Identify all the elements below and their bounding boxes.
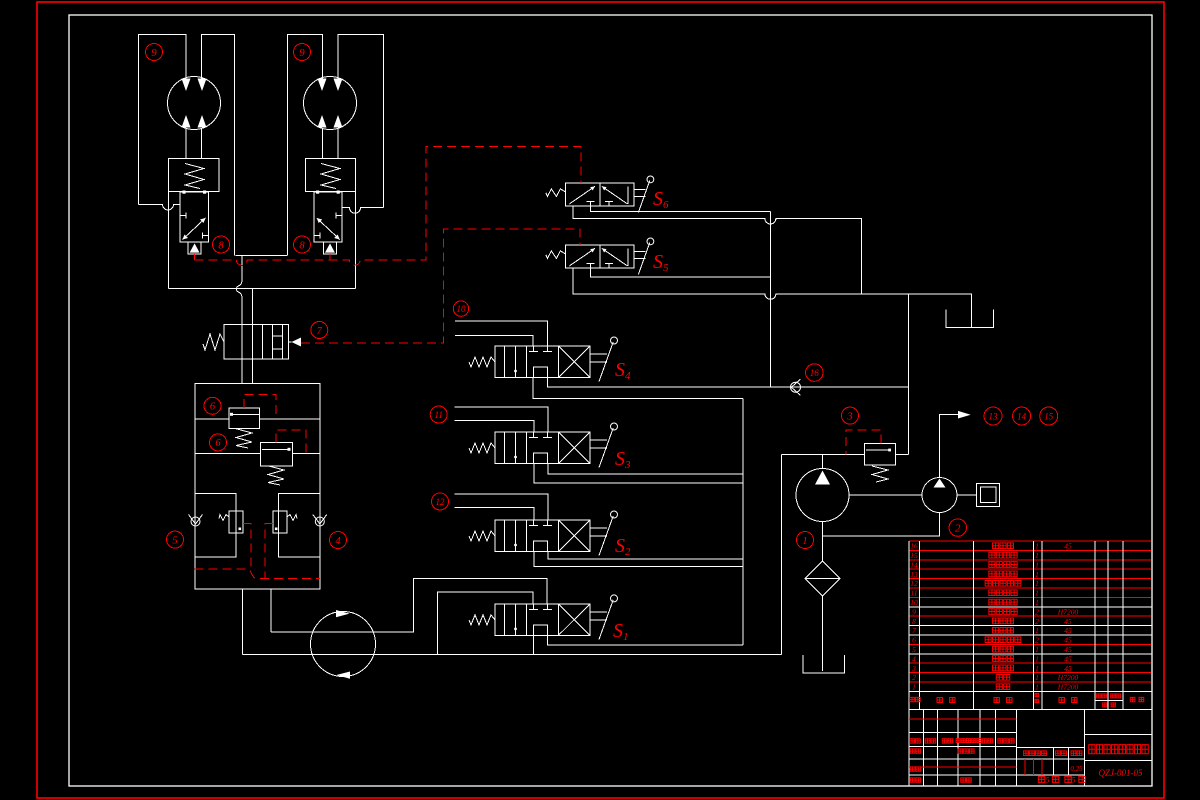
wire block line A (195, 418, 320, 420)
pilot drop valve8R (329, 254, 331, 260)
svg-text:45: 45 (1064, 542, 1072, 551)
svg-text:45: 45 (1064, 626, 1072, 635)
svg-text:8: 8 (299, 240, 305, 251)
label 13 (984, 407, 1002, 425)
svg-text:6: 6 (215, 438, 221, 449)
valve 8 right pilot (323, 242, 336, 254)
svg-text:1: 1 (1035, 589, 1039, 598)
svg-text:1: 1 (1035, 560, 1039, 569)
pilot relief valve 3 (846, 430, 881, 455)
svg-text:13: 13 (910, 570, 918, 579)
label 8 left (213, 236, 230, 253)
pilot line valve8L to S6 (194, 254, 196, 260)
wire pump upper line (271, 579, 547, 632)
pilot valve 6 upper (244, 394, 276, 419)
valve S2 (469, 511, 618, 556)
wire pump lower return line (243, 654, 782, 656)
svg-text:1: 1 (1035, 645, 1039, 654)
pilot block right (265, 524, 273, 579)
svg-text:7: 7 (912, 626, 916, 635)
svg-text:5: 5 (1046, 776, 1050, 785)
svg-text:1: 1 (1035, 626, 1039, 635)
wire pump outlet (822, 455, 824, 469)
pilot valve right in block (273, 511, 297, 533)
label 8 right (294, 236, 311, 253)
svg-text:H7200: H7200 (1057, 683, 1079, 692)
label 11 (430, 406, 447, 423)
relief valve 3 (865, 444, 896, 482)
wire S6 outputs (590, 206, 770, 211)
svg-text:15: 15 (1044, 412, 1054, 422)
svg-text:15: 15 (910, 551, 918, 560)
wire S2 ports (455, 494, 548, 520)
wire block bottom pipes (243, 589, 271, 655)
svg-text:13: 13 (989, 412, 999, 422)
wire tank return right (780, 455, 782, 655)
balance valve 6 upper (229, 408, 259, 448)
wire left loop to valve8L (139, 205, 181, 211)
balance valve 6 lower (261, 442, 293, 485)
hydraulic motor 9 left (168, 77, 221, 130)
tank top right (946, 309, 993, 327)
BOM rows text (910, 542, 1078, 692)
svg-text:8: 8 (218, 240, 224, 251)
tank bottom (803, 655, 845, 673)
svg-text:5: 5 (172, 535, 177, 546)
pilot line valve7 to S5 (301, 229, 580, 343)
label 10 (453, 301, 468, 316)
valve 8 left body (180, 191, 208, 243)
svg-text:4: 4 (335, 536, 341, 547)
valve block outline (195, 383, 320, 589)
label 2 (949, 519, 966, 536)
label 1 (797, 532, 814, 549)
brake spring box right (305, 159, 355, 192)
svg-text:2: 2 (955, 523, 961, 534)
electric motor 2 (922, 478, 957, 513)
svg-text:H7200: H7200 (1057, 607, 1079, 616)
svg-text:1: 1 (1035, 654, 1039, 663)
svg-text:9: 9 (912, 607, 916, 616)
label 9 left (146, 44, 163, 61)
svg-text:14: 14 (910, 560, 918, 569)
callout circles (146, 44, 1058, 549)
svg-text:1: 1 (1035, 683, 1039, 692)
svg-text:8: 8 (912, 617, 916, 626)
valve S4 (469, 337, 618, 382)
svg-text:11: 11 (911, 589, 918, 598)
wire right loop to valve8R (342, 208, 383, 214)
svg-text:5: 5 (912, 645, 916, 654)
svg-text:9: 9 (299, 48, 305, 59)
valve S5 (546, 238, 654, 274)
svg-text:1: 1 (1035, 664, 1039, 673)
svg-text:0.25: 0.25 (1070, 765, 1083, 773)
svg-text:12: 12 (436, 497, 446, 507)
wire S4 ports (455, 321, 548, 346)
BOM header fake cjk (910, 693, 1144, 707)
label 6 lower (210, 434, 227, 451)
drive square (957, 483, 1000, 506)
wire S5 outputs (590, 268, 770, 277)
svg-text:3: 3 (846, 411, 852, 422)
svg-text:QZJ-001-05: QZJ-001-05 (1099, 768, 1143, 778)
valve 7 (203, 324, 301, 359)
label 6 upper (204, 397, 221, 414)
sheet numbers (1046, 776, 1076, 785)
rotary pump (311, 610, 376, 679)
wire motor-left ports (139, 35, 235, 256)
svg-text:9: 9 (151, 48, 157, 59)
svg-text:45: 45 (1064, 664, 1072, 673)
label 12 (432, 493, 449, 510)
wire brake cross line (168, 192, 355, 289)
svg-text:1: 1 (1035, 579, 1039, 588)
svg-text:45: 45 (1064, 636, 1072, 645)
block inner chamber left (195, 493, 236, 557)
valve S3 (469, 423, 618, 468)
svg-text:4: 4 (912, 654, 916, 663)
pilot block bottom (195, 569, 320, 579)
svg-text:1: 1 (1035, 570, 1039, 579)
svg-text:1: 1 (912, 683, 916, 692)
label 7 (311, 322, 328, 339)
svg-text:2: 2 (1035, 607, 1039, 616)
svg-text:2: 2 (1035, 617, 1039, 626)
svg-text:1: 1 (1035, 673, 1039, 682)
svg-text:H7200: H7200 (1057, 673, 1079, 682)
svg-text:1: 1 (1035, 542, 1039, 551)
BOM table grid (909, 541, 1151, 786)
valve S1 (469, 595, 618, 640)
label 14 (1013, 407, 1031, 425)
wire filter to tank (822, 596, 824, 671)
svg-text:16: 16 (810, 368, 820, 378)
svg-text:7: 7 (317, 326, 323, 337)
svg-text:1: 1 (802, 536, 807, 547)
svg-text:10: 10 (457, 304, 467, 314)
label 9 right (294, 44, 311, 61)
wire coupling (849, 494, 922, 496)
label 3 (842, 407, 859, 424)
svg-text:45: 45 (1064, 645, 1072, 654)
wire S1 feed left (437, 592, 532, 654)
label 16 (806, 364, 824, 382)
svg-text:6: 6 (210, 402, 216, 413)
svg-text:11: 11 (435, 410, 443, 420)
wire motor2 top arrow (940, 411, 971, 478)
svg-text:45: 45 (1064, 617, 1072, 626)
svg-text:1: 1 (1035, 598, 1039, 607)
wire to valve 7 left pipe (236, 256, 242, 325)
svg-text:5: 5 (1072, 776, 1076, 785)
label 5 (167, 531, 184, 548)
block inner chamber right (279, 493, 320, 557)
filter (805, 561, 840, 596)
label 4 (330, 532, 347, 549)
svg-text:2: 2 (1035, 636, 1039, 645)
pilot valve 6 lower (276, 430, 306, 453)
svg-text:3: 3 (911, 664, 916, 673)
wire drain vertical (769, 211, 771, 387)
svg-text:6: 6 (912, 636, 916, 645)
check valve 4 (313, 515, 327, 527)
pilot valve left in block (219, 511, 243, 533)
valve 8 left pilot (188, 242, 201, 254)
check valve 16 (791, 379, 801, 395)
wire motor-right ports (287, 35, 383, 256)
svg-text:1: 1 (1035, 551, 1039, 560)
wire to valve 7 right pipe (251, 288, 253, 324)
brake spring box left (169, 159, 219, 192)
svg-text:45: 45 (1064, 654, 1072, 663)
svg-text:2: 2 (912, 673, 916, 682)
wire pressure line (781, 294, 908, 455)
valve name labels (613, 188, 669, 643)
wire valve8 connecting bar (236, 255, 288, 257)
valve 8 right body (314, 191, 342, 243)
title block fake cjk (910, 739, 1086, 783)
BOM names fake cjk (985, 543, 1021, 690)
wire S1 outputs (534, 635, 743, 654)
svg-text:12: 12 (910, 579, 918, 588)
wire pump suction (822, 522, 824, 562)
pump 1 (796, 469, 849, 522)
drawing title fake cjk (1089, 745, 1149, 754)
check valve 5 (189, 515, 203, 527)
label 15 (1040, 407, 1058, 425)
pilot block left (243, 524, 251, 569)
wire motor2 drain (823, 513, 940, 536)
svg-text:16: 16 (910, 542, 918, 551)
wire valve7 to block (242, 359, 253, 383)
title block grid (909, 710, 1151, 786)
svg-text:14: 14 (1017, 412, 1027, 422)
svg-text:10: 10 (910, 598, 918, 607)
valve S6 (546, 176, 654, 212)
wire S3 ports (455, 407, 548, 432)
wire return manifold (742, 398, 744, 645)
hydraulic motor 9 right (304, 77, 357, 130)
wire block line B (195, 452, 320, 454)
